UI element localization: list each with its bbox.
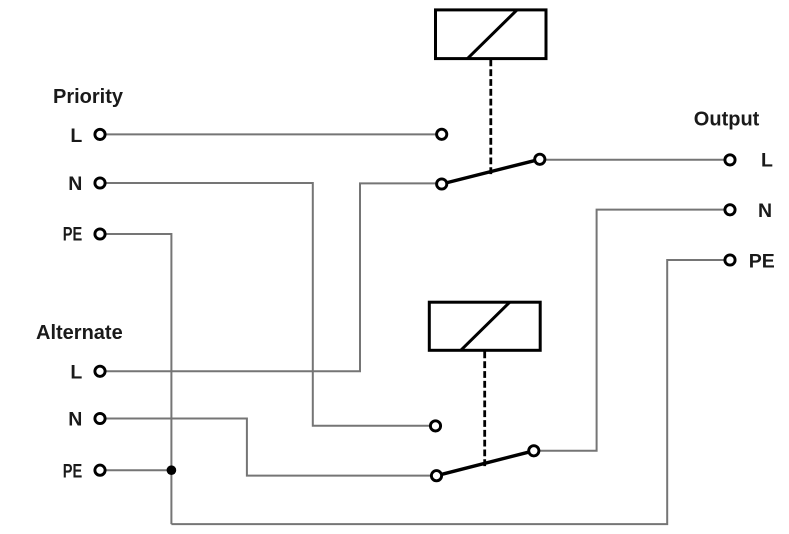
relay coil K1: [436, 10, 547, 59]
switch lever lower (K2 contact arm): [437, 451, 534, 476]
svg-text:L: L: [70, 125, 82, 147]
svg-text:PE: PE: [749, 250, 775, 272]
wire lower switch common to Output N: [534, 210, 730, 451]
junction node PE: [167, 465, 177, 475]
svg-text:L: L: [70, 362, 82, 384]
svg-text:Priority: Priority: [53, 86, 124, 108]
terminal Priority N: [95, 178, 105, 188]
wire Priority L to relay contact: [100, 133, 442, 135]
svg-text:N: N: [68, 409, 82, 431]
contact K2 common: [529, 446, 539, 456]
wire Alternate N to lower switch lower contact: [100, 419, 437, 476]
wire Priority PE down: [100, 234, 171, 524]
contact K1 lower (Alternate L): [437, 179, 447, 189]
wire PE bottom run to Output PE: [171, 260, 730, 524]
contact K2 upper (Priority N): [430, 421, 440, 431]
svg-text:PE: PE: [63, 460, 83, 482]
terminal Priority PE: [95, 229, 105, 239]
contact K1 common: [535, 154, 545, 164]
wire upper switch common to Output L: [540, 159, 730, 161]
wire Priority N to lower switch upper contact: [100, 183, 436, 426]
svg-text:Alternate: Alternate: [36, 322, 123, 344]
svg-text:PE: PE: [63, 223, 83, 245]
svg-text:L: L: [761, 150, 773, 172]
switch lever upper (K1 contact arm): [442, 159, 540, 184]
contact K1 upper (Priority L): [437, 129, 447, 139]
terminal Alternate L: [95, 366, 105, 376]
wire Alternate L up to upper switch lower contact: [100, 183, 442, 371]
svg-text:N: N: [758, 200, 772, 222]
terminal Priority L: [95, 129, 105, 139]
contact K2 lower (Alternate N): [431, 471, 441, 481]
dashed actuator link K2: [483, 352, 486, 469]
relay coil K2: [429, 302, 540, 350]
terminal Alternate N: [95, 413, 105, 423]
terminal Output N: [725, 205, 735, 215]
terminal Alternate PE: [95, 465, 105, 475]
dashed actuator link K1: [489, 60, 492, 178]
terminal Output L: [725, 155, 735, 165]
svg-text:N: N: [68, 173, 82, 195]
svg-text:Output: Output: [694, 109, 760, 131]
terminal Output PE: [725, 255, 735, 265]
wire Alternate PE to junction: [100, 469, 171, 471]
